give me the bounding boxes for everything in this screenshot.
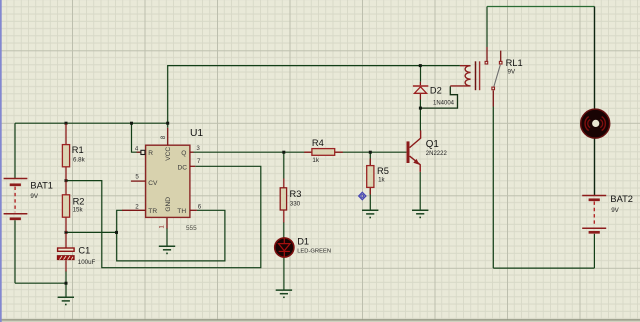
wire: BAT1 negative to bottom rail xyxy=(14,220,16,283)
battery BAT2 xyxy=(582,196,606,233)
svg-text:Q: Q xyxy=(181,150,186,157)
U1 pin 6 TH stub xyxy=(190,209,197,211)
svg-text:2N2222: 2N2222 xyxy=(426,151,448,157)
resistor R4 1k xyxy=(304,138,343,164)
ground (555 pin1) xyxy=(159,246,175,253)
svg-text:R: R xyxy=(148,150,153,157)
svg-text:CV: CV xyxy=(148,180,158,187)
wire: R pin branch xyxy=(132,123,141,152)
svg-text:9V: 9V xyxy=(508,69,516,76)
svg-text:8: 8 xyxy=(160,135,167,139)
svg-text:BAT1: BAT1 xyxy=(30,181,53,191)
node: R2/C1 junction xyxy=(65,231,68,234)
svg-text:6: 6 xyxy=(198,203,202,210)
wire: Q1 emitter to ground xyxy=(419,172,421,210)
svg-text:15k: 15k xyxy=(73,207,84,214)
node marker: blue origin diamond xyxy=(359,192,366,199)
svg-text:R2: R2 xyxy=(73,196,85,206)
wire: D2 top to rail xyxy=(420,66,422,82)
svg-text:R3: R3 xyxy=(290,189,302,199)
wire: TR-TH loop xyxy=(117,210,225,261)
motor (right load) xyxy=(581,109,610,138)
wire: BAT2 negative down xyxy=(593,234,595,268)
U1 pin 5 CV stub xyxy=(131,180,146,182)
capacitor C1 100uF electrolytic xyxy=(57,233,95,272)
svg-text:9V: 9V xyxy=(611,207,619,214)
svg-text:1k: 1k xyxy=(378,176,385,183)
svg-text:TR: TR xyxy=(148,208,157,215)
svg-text:3: 3 xyxy=(196,145,200,152)
resistor R3 330 xyxy=(280,179,301,223)
svg-text:VCC: VCC xyxy=(165,147,172,161)
svg-text:2: 2 xyxy=(135,203,139,210)
wire: bottom right rail to BAT2 xyxy=(493,267,594,269)
svg-text:Q1: Q1 xyxy=(426,139,439,150)
battery BAT1 xyxy=(4,179,28,219)
wire: BAT1 positive lead xyxy=(14,123,16,178)
svg-text:R5: R5 xyxy=(377,166,389,176)
wire: bottom rail to ground junction xyxy=(15,282,66,284)
U1 pin 3 Q xyxy=(190,151,194,153)
svg-text:1k: 1k xyxy=(312,157,319,164)
U1 pin 7 DC xyxy=(190,165,195,167)
ground (D1) xyxy=(276,290,292,297)
wire: relay coil bottom step to collector node xyxy=(420,86,457,108)
node: R1/R2 junction xyxy=(65,179,68,182)
svg-text:555: 555 xyxy=(186,225,197,232)
wire: top rail BAT1+ to VCC xyxy=(15,122,168,124)
resistor R1 6.8k xyxy=(62,124,85,181)
node: rail/R1 junction xyxy=(65,122,68,125)
node: R5 tap on output row xyxy=(369,151,372,154)
svg-text:R4: R4 xyxy=(312,138,324,148)
svg-text:9V: 9V xyxy=(30,193,38,200)
wire: VCC rail up and right to relay coil xyxy=(168,66,460,128)
wire: D1 to ground xyxy=(283,257,285,290)
node: rail/VCC junction xyxy=(166,122,169,125)
wire: relay NC contact up to top rail xyxy=(486,7,488,48)
LED D1 LED-GREEN xyxy=(275,236,331,257)
node: TR loop tee xyxy=(115,231,118,234)
svg-text:1: 1 xyxy=(158,225,165,229)
svg-text:BAT2: BAT2 xyxy=(610,194,633,204)
svg-text:TH: TH xyxy=(177,208,186,215)
svg-text:LED-GREEN: LED-GREEN xyxy=(297,249,331,255)
wire: 555 GND pin to ground xyxy=(166,228,168,246)
svg-text:330: 330 xyxy=(290,200,301,207)
svg-text:D2: D2 xyxy=(430,86,442,96)
svg-text:GND: GND xyxy=(165,197,172,212)
U1 pin 4 R with bubble xyxy=(137,151,141,153)
svg-text:100uF: 100uF xyxy=(78,259,96,266)
wire: R1/R2 junction to pin7 riser xyxy=(66,166,261,267)
node: D2 cathode / rail junction xyxy=(419,64,422,67)
relay RL1 switch xyxy=(485,47,502,107)
transistor Q1 2N2222 xyxy=(407,130,448,172)
ground (R5) xyxy=(362,210,378,217)
ground (BAT1/C1 net) xyxy=(58,297,74,304)
svg-text:DC: DC xyxy=(178,164,188,171)
U1 pin 2 TR stub xyxy=(122,209,146,211)
wire: motor to BAT2 xyxy=(594,138,596,195)
node: rail/R-pin junction xyxy=(130,122,133,125)
wire: junction to ground xyxy=(65,283,67,297)
relay RL1 coil xyxy=(450,61,479,90)
svg-text:RL1: RL1 xyxy=(506,58,523,68)
svg-text:R1: R1 xyxy=(72,145,84,155)
wire: R3 branch down xyxy=(283,152,285,178)
wire: C1 bottom lead to junction xyxy=(65,271,67,284)
svg-text:C1: C1 xyxy=(78,246,90,256)
wire: motor top feed xyxy=(594,7,596,109)
svg-text:4: 4 xyxy=(135,145,139,152)
wire: R5 branch xyxy=(369,152,371,210)
wire: R3 to LED D1 xyxy=(283,222,285,238)
node: BAT1- / C1- / ground junction xyxy=(65,282,68,285)
svg-text:6.8k: 6.8k xyxy=(73,156,86,163)
resistor R5 1k xyxy=(367,159,389,195)
wire: top right rail xyxy=(487,6,595,8)
diode D2 1N4004 xyxy=(413,82,455,107)
U1 pin 8 VCC xyxy=(167,128,169,145)
svg-text:D1: D1 xyxy=(297,236,309,246)
wire: Q output row to Q1 base xyxy=(193,151,406,153)
node: R3 tap on output row xyxy=(282,151,285,154)
svg-text:U1: U1 xyxy=(190,128,203,139)
op-amp/timer U1 555 body xyxy=(146,128,204,232)
wire: D2 bottom to collector node xyxy=(419,99,421,130)
wire: R2/C1 junction to TR loop xyxy=(66,231,117,233)
U1 pin 1 GND xyxy=(166,218,168,229)
ground (Q1 emitter) xyxy=(412,210,428,217)
wire: relay switch common pin down xyxy=(492,107,494,269)
resistor R2 15k xyxy=(62,181,84,232)
svg-text:1N4004: 1N4004 xyxy=(433,100,455,106)
svg-text:7: 7 xyxy=(197,158,201,165)
node: D2 anode / collector junction xyxy=(419,107,422,110)
svg-text:5: 5 xyxy=(135,174,139,181)
